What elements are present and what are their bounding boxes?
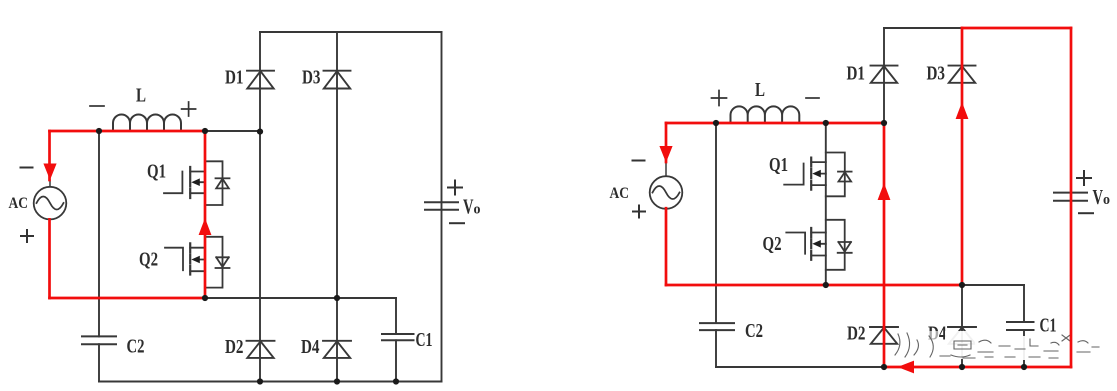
wire red D2 leg (right): [883, 123, 886, 367]
wire C2 leg: [98, 131, 100, 382]
node top of Q branch (right): [823, 120, 829, 126]
wire red top (AC to Q branch): [50, 130, 206, 133]
svg-text:AC: AC: [9, 195, 29, 212]
node bottom rail at C1: [393, 378, 399, 384]
wire black stub above AC source: [49, 180, 51, 187]
diode D1 (right): [871, 66, 898, 83]
wire red Q1-Q2 branch vertical: [204, 131, 207, 298]
node bottom of Q branch: [202, 295, 208, 301]
svg-text:D1: D1: [847, 63, 866, 85]
node top of C2 leg: [96, 128, 102, 134]
current arrow left along bottom rail (right): [898, 361, 915, 374]
svg-text:V: V: [463, 195, 474, 219]
diode D1: [247, 71, 274, 89]
wire red D3 leg (right): [961, 28, 964, 285]
svg-text:C2: C2: [745, 320, 763, 342]
svg-text:D3: D3: [927, 63, 946, 85]
node bottom rail at D4 (right): [959, 364, 965, 370]
node top of C2 leg (right): [713, 120, 719, 126]
capacitor C1 (right): [1007, 322, 1034, 330]
diode D2: [247, 341, 275, 358]
current arrow up through D2 leg (right): [878, 183, 891, 200]
svg-text:V: V: [1093, 185, 1104, 209]
svg-text:C1: C1: [1040, 315, 1057, 337]
polarity plus above Vo: [448, 181, 462, 195]
mosfet Q1: [164, 167, 205, 198]
node D1-D2 midpoint: [257, 129, 263, 135]
wire Vo output leg vertical: [441, 32, 443, 382]
watermark white-out blobs: [894, 331, 1062, 360]
current arrow down into AC source: [43, 164, 56, 181]
polarity minus above AC: [21, 167, 33, 169]
polarity plus left of L (right): [712, 91, 727, 106]
wire top node black segment: [205, 130, 260, 132]
wire mid horizontal to C1: [205, 297, 396, 299]
wire bottom rail black segment (right): [716, 366, 884, 368]
svg-text:D1: D1: [225, 67, 244, 89]
node bottom of Q branch (right): [823, 282, 829, 288]
diode D4: [323, 341, 351, 358]
wire red bottom (AC to Q branch): [50, 297, 206, 300]
diode D4 (right): [948, 327, 976, 344]
svg-text:L: L: [755, 79, 765, 101]
wire D4 leg (right): [961, 285, 963, 367]
polarity minus above AC (right): [633, 160, 645, 162]
svg-text:o: o: [1103, 192, 1110, 208]
wire red AC leg upper (right): [665, 123, 668, 162]
AC source V2 (right): [650, 176, 683, 209]
capacitor C1: [382, 334, 414, 340]
node D1-D2 midpoint (right): [881, 120, 887, 126]
current arrow up through D3 leg (right): [956, 102, 969, 119]
wire red AC leg upper: [48, 131, 51, 180]
capacitor Vo (right): [1054, 193, 1087, 201]
svg-text:Q2: Q2: [763, 233, 782, 255]
node bottom rail at C1 (right): [1021, 364, 1027, 370]
svg-text:D2: D2: [847, 323, 866, 345]
capacitor Vo: [425, 202, 458, 210]
wire D1 leg (right): [883, 28, 885, 123]
node bottom rail at D4: [334, 378, 340, 384]
node bottom rail at D2 (right): [881, 364, 887, 370]
svg-text:Q1: Q1: [147, 161, 166, 183]
current arrow down into AC source (right): [659, 146, 672, 163]
polarity minus right of L (right): [806, 97, 819, 99]
wire red bottom horizontal (right): [666, 284, 962, 287]
wire D1-D2 bridge leg vertical: [259, 32, 261, 382]
diode D3: [324, 71, 351, 89]
wire red top node (right): [666, 122, 884, 125]
wire top rail black segment (right circuit): [884, 27, 962, 29]
capacitor C2 (right): [700, 323, 734, 330]
svg-text:D3: D3: [302, 67, 321, 89]
svg-text:D2: D2: [225, 336, 244, 358]
diode D2 (right): [870, 327, 898, 344]
svg-text:Q2: Q2: [139, 249, 158, 271]
svg-text:AC: AC: [610, 185, 630, 202]
wire C1 leg (right): [1023, 285, 1025, 367]
inductor L: [113, 115, 181, 132]
wire red AC leg lower: [48, 219, 51, 298]
AC source V1: [34, 187, 67, 220]
polarity plus below AC (right): [633, 206, 645, 218]
svg-text:C1: C1: [416, 329, 433, 351]
diode D3 (right): [949, 66, 976, 83]
wire C2 leg (right): [715, 123, 717, 367]
node D3-D4 midpoint: [334, 295, 340, 301]
current arrow up through Q branch: [199, 218, 212, 235]
body diode of Q2 (right): [826, 220, 852, 270]
node top of Q branch: [202, 128, 208, 134]
mosfet Q2 (right): [786, 228, 826, 260]
body diode of Q1: [205, 161, 230, 205]
svg-text:C2: C2: [127, 336, 145, 358]
body diode of Q2: [205, 237, 230, 288]
polarity minus below Vo (right): [1079, 212, 1093, 214]
svg-text:Q1: Q1: [769, 154, 788, 176]
wire red AC leg lower (right): [665, 208, 668, 285]
wire bottom rail (left circuit): [99, 381, 442, 383]
node D3-D4 midpoint (right): [959, 282, 965, 288]
mosfet Q2: [165, 243, 205, 274]
capacitor C2: [82, 336, 116, 344]
polarity plus right of L: [182, 102, 196, 116]
body diode of Q1 (right): [826, 153, 852, 197]
wire black stub above AC (right): [665, 162, 667, 177]
wire red Vo leg (right): [1070, 28, 1073, 367]
node bottom rail at D2: [257, 378, 263, 384]
wire top rail (left circuit): [260, 31, 442, 33]
polarity minus below Vo: [450, 222, 464, 224]
polarity minus left of L: [90, 105, 104, 107]
watermark gray character fragments: [895, 333, 1099, 358]
polarity plus below AC: [21, 230, 33, 242]
wire red top rail segment (right): [962, 27, 1071, 30]
wire C1 leg: [395, 298, 397, 382]
wire red bottom rail segment (right): [884, 366, 1071, 369]
wire C1 feed (right): [962, 284, 1024, 286]
svg-text:D4: D4: [301, 336, 320, 358]
svg-text:o: o: [474, 202, 481, 218]
inductor L (right): [731, 106, 800, 123]
wire Q branch vertical (right): [825, 123, 827, 285]
wire D3-D4 bridge leg vertical: [336, 32, 338, 382]
mosfet Q1 (right): [784, 158, 826, 190]
svg-text:L: L: [136, 85, 146, 107]
polarity plus above Vo (right): [1077, 171, 1091, 185]
